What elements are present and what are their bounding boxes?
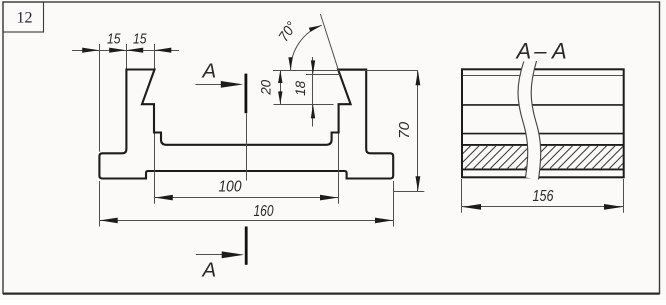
svg-text:15: 15 (133, 32, 147, 48)
svg-text:156: 156 (533, 188, 554, 205)
svg-text:100: 100 (219, 178, 242, 195)
svg-text:A: A (201, 258, 217, 281)
svg-text:70: 70 (396, 121, 413, 139)
svg-text:–: – (533, 38, 547, 63)
svg-text:12: 12 (17, 10, 33, 27)
svg-text:18: 18 (293, 80, 308, 95)
svg-text:20: 20 (258, 79, 273, 95)
svg-text:A: A (201, 59, 217, 82)
svg-text:A: A (550, 38, 567, 63)
svg-text:15: 15 (107, 32, 121, 48)
svg-text:A: A (514, 38, 531, 63)
svg-text:160: 160 (254, 203, 274, 220)
